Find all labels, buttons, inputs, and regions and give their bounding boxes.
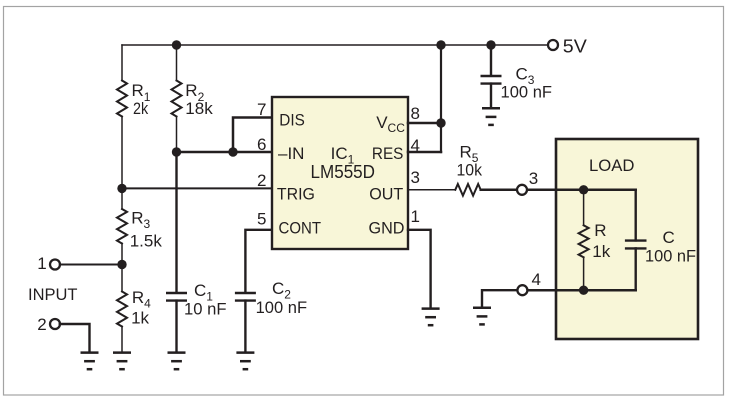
svg-text:INPUT: INPUT: [28, 285, 78, 304]
wire: load bottom bus: [556, 289, 636, 292]
wire: C3 to ground: [490, 84, 492, 107]
wire: input 2 to ground: [60, 324, 90, 351]
wire: load C to bottom bus: [635, 248, 637, 290]
svg-text:7: 7: [257, 100, 266, 119]
wire: TRIG node to R3: [121, 188, 123, 209]
wire: C1 to ground: [175, 301, 177, 352]
svg-text:OUT: OUT: [369, 184, 403, 203]
ground: R4: [113, 353, 131, 370]
svg-text:CONT: CONT: [279, 218, 322, 237]
svg-text:RES: RES: [372, 144, 404, 163]
svg-text:TRIG: TRIG: [277, 184, 315, 203]
wire: load top to R: [583, 190, 585, 226]
svg-text:1: 1: [37, 254, 46, 273]
svg-text:1k: 1k: [131, 309, 149, 328]
wire: rail to C3: [490, 45, 492, 76]
wire: CONT pin 5 to C2: [245, 230, 272, 293]
wire: VCC vertical to rail: [440, 45, 442, 152]
svg-text:DIS: DIS: [279, 110, 305, 129]
svg-text:2: 2: [257, 171, 266, 190]
junction: rail/R2: [172, 40, 181, 49]
capacitor C3: [481, 76, 502, 84]
svg-text:R: R: [594, 221, 606, 240]
wire: R2 to -IN node: [176, 117, 178, 153]
junction: load bottom: [579, 286, 588, 295]
wire: R5 to terminal 3: [481, 189, 517, 192]
op-amp/timer IC1 LM555D body: [272, 97, 408, 249]
svg-text:2k: 2k: [133, 99, 149, 118]
svg-text:18k: 18k: [185, 99, 213, 118]
svg-text:1k: 1k: [592, 242, 610, 261]
junction: DIS/-IN tie: [228, 147, 237, 156]
wire: -IN node down to C1: [175, 152, 177, 293]
junction: -IN node: [172, 147, 181, 156]
resistor R4: [117, 292, 127, 327]
svg-text:C: C: [663, 228, 675, 247]
resistor R5: [455, 184, 480, 196]
ground: input 2: [81, 353, 99, 370]
ground: C3: [482, 108, 500, 125]
resistor R (load): [579, 225, 589, 257]
svg-text:100 nF: 100 nF: [256, 298, 308, 317]
wire: R3 to input node: [121, 244, 123, 265]
wire: RES pin 4 stub: [408, 151, 441, 154]
junction: rail/C3: [486, 40, 495, 49]
wire: terminal 4 to ground: [482, 290, 517, 306]
terminal: input 1: [50, 260, 60, 270]
node: TRIG junction: [117, 184, 126, 193]
wire: TRIG line to IC pin 2: [122, 187, 272, 189]
svg-text:4: 4: [532, 270, 541, 289]
wire: OUT pin 3 to R5: [408, 189, 455, 191]
svg-text:5V: 5V: [563, 37, 587, 57]
wire: -IN line to IC pin 6: [177, 151, 273, 154]
svg-text:1.5k: 1.5k: [130, 231, 163, 250]
svg-text:10k: 10k: [457, 160, 483, 179]
terminal: input 2: [50, 319, 60, 329]
wire: C2 to ground: [244, 301, 246, 352]
wire: R4 to ground: [121, 327, 123, 352]
svg-text:2: 2: [37, 315, 46, 334]
capacitor C1: [166, 293, 187, 301]
svg-text:100 nF: 100 nF: [645, 247, 696, 266]
svg-text:GND: GND: [369, 218, 405, 237]
wire: load top bus to C: [635, 190, 637, 241]
wire: DIS pin 7 loop: [233, 118, 272, 153]
svg-text:1: 1: [411, 207, 420, 226]
resistor R3: [117, 209, 127, 244]
svg-text:–IN: –IN: [278, 144, 304, 163]
svg-text:5: 5: [257, 209, 266, 228]
wire: GND pin 1 to ground: [408, 230, 431, 307]
wire: input node to R4: [121, 265, 123, 292]
resistor R1: [117, 81, 127, 117]
ground: C2: [236, 353, 254, 370]
wire: R1 to TRIG node: [121, 117, 123, 189]
capacitor C (load): [625, 241, 647, 249]
node: input 1 junction: [117, 260, 126, 269]
svg-text:8: 8: [411, 104, 420, 123]
resistor R2: [172, 81, 182, 117]
wire: rail to R1: [121, 45, 123, 81]
wire: load R to bottom bus: [583, 257, 585, 290]
LOAD box: [556, 139, 698, 339]
capacitor C2: [235, 293, 256, 301]
svg-text:100 nF: 100 nF: [501, 83, 553, 102]
wire: load top bus: [556, 189, 636, 192]
terminal: return 4: [517, 285, 527, 295]
svg-text:10 nF: 10 nF: [184, 300, 227, 319]
junction: rail/VCC: [436, 40, 445, 49]
svg-text:3: 3: [529, 169, 538, 188]
ground: C1: [168, 353, 186, 370]
wire: terminal 3 to load: [528, 189, 556, 192]
wire: 5V supply rail: [122, 44, 548, 46]
junction: load top: [579, 185, 588, 194]
svg-text:LOAD: LOAD: [589, 156, 635, 175]
wire: input 1 to divider: [60, 264, 122, 266]
junction: pin8/pin4 tie: [436, 118, 445, 127]
ground: terminal 4: [473, 308, 491, 325]
svg-text:3: 3: [411, 168, 420, 187]
terminal: output 3: [517, 185, 527, 195]
terminal: 5V supply: [548, 40, 558, 50]
wire: rail to R2: [176, 45, 178, 81]
svg-text:LM555D: LM555D: [311, 162, 376, 182]
svg-text:6: 6: [257, 135, 266, 154]
wire: terminal 4 to load return: [528, 289, 556, 292]
wire: VCC pin 8 stub: [408, 122, 441, 125]
ground: IC GND: [422, 309, 440, 326]
